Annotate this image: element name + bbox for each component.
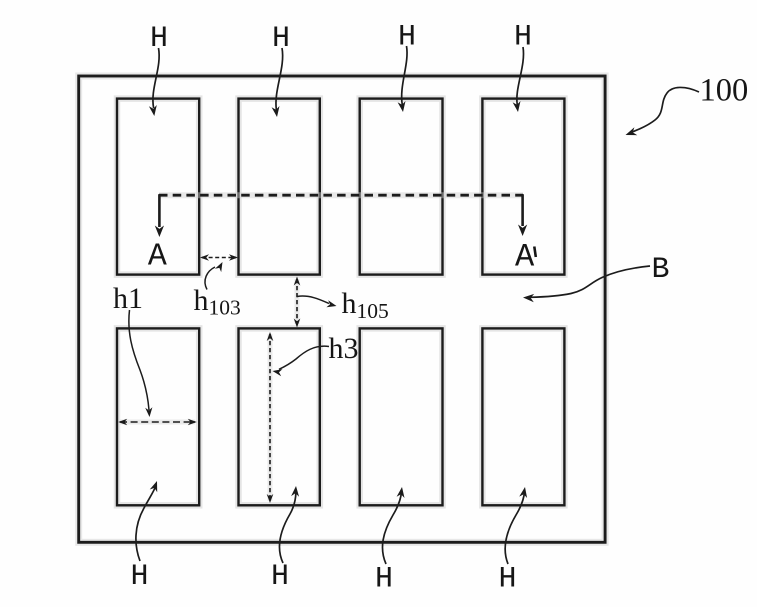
svg-text:H: H xyxy=(498,563,516,597)
svg-text:h3: h3 xyxy=(329,332,359,365)
svg-text:H: H xyxy=(271,560,289,594)
svg-text:H: H xyxy=(272,22,290,56)
svg-text:H: H xyxy=(150,22,168,56)
svg-text:h105: h105 xyxy=(342,287,389,323)
svg-text:h1: h1 xyxy=(113,282,143,315)
svg-text:A: A xyxy=(148,240,167,275)
svg-text:H: H xyxy=(514,20,532,54)
svg-text:H: H xyxy=(398,20,416,54)
svg-text:B: B xyxy=(651,253,669,287)
svg-text:H: H xyxy=(130,560,148,594)
svg-text:H: H xyxy=(375,563,393,597)
svg-text:A: A xyxy=(515,239,535,276)
svg-text:100: 100 xyxy=(700,73,749,109)
svg-text:h103: h103 xyxy=(194,284,241,320)
